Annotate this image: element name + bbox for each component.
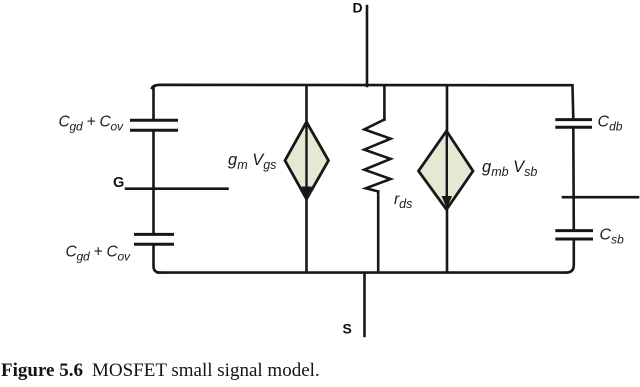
wire S terminal lead xyxy=(363,273,366,336)
svg-text:gmb Vsb: gmb Vsb xyxy=(482,158,537,179)
resistor rds top lead xyxy=(383,86,386,120)
wire B body terminal lead xyxy=(563,196,638,199)
capacitor Cdb plates xyxy=(557,120,591,128)
svg-text:G: G xyxy=(113,175,124,191)
capacitor Csb plates xyxy=(557,231,592,239)
svg-text:Csb: Csb xyxy=(600,227,625,247)
svg-text:gm Vgs: gm Vgs xyxy=(228,151,276,172)
svg-text:D: D xyxy=(353,0,363,16)
svg-text:rds: rds xyxy=(394,191,412,211)
wire gmb branch xyxy=(446,86,449,272)
svg-text:Cdb: Cdb xyxy=(598,114,623,134)
wire D terminal lead xyxy=(366,6,369,86)
wire left rail upper xyxy=(152,87,155,120)
wire G terminal lead xyxy=(126,187,228,190)
wire top rail xyxy=(152,85,572,88)
wire left rail lower xyxy=(154,245,161,273)
current source gmbVsb diamond xyxy=(419,131,474,210)
svg-text:S: S xyxy=(343,321,352,337)
svg-text:Cgd + Cov: Cgd + Cov xyxy=(59,114,124,134)
current source gmVgs diamond xyxy=(285,122,329,199)
resistor rds bottom lead xyxy=(377,191,380,272)
wire right rail upper xyxy=(571,86,574,120)
wire bottom rail xyxy=(158,271,566,274)
svg-text:Figure 5.6MOSFET small signal: Figure 5.6MOSFET small signal model. xyxy=(1,360,320,381)
wire left rail middle xyxy=(152,131,155,235)
svg-text:Cgd + Cov: Cgd + Cov xyxy=(66,244,131,264)
resistor rds zigzag xyxy=(364,120,390,192)
wire gm branch xyxy=(305,86,308,272)
wire right rail middle xyxy=(572,128,575,231)
wire right rail lower xyxy=(566,239,574,272)
capacitor Cgd+Cov (lower) plates xyxy=(136,234,173,244)
capacitor Cgd+Cov (upper) plates xyxy=(132,120,177,130)
